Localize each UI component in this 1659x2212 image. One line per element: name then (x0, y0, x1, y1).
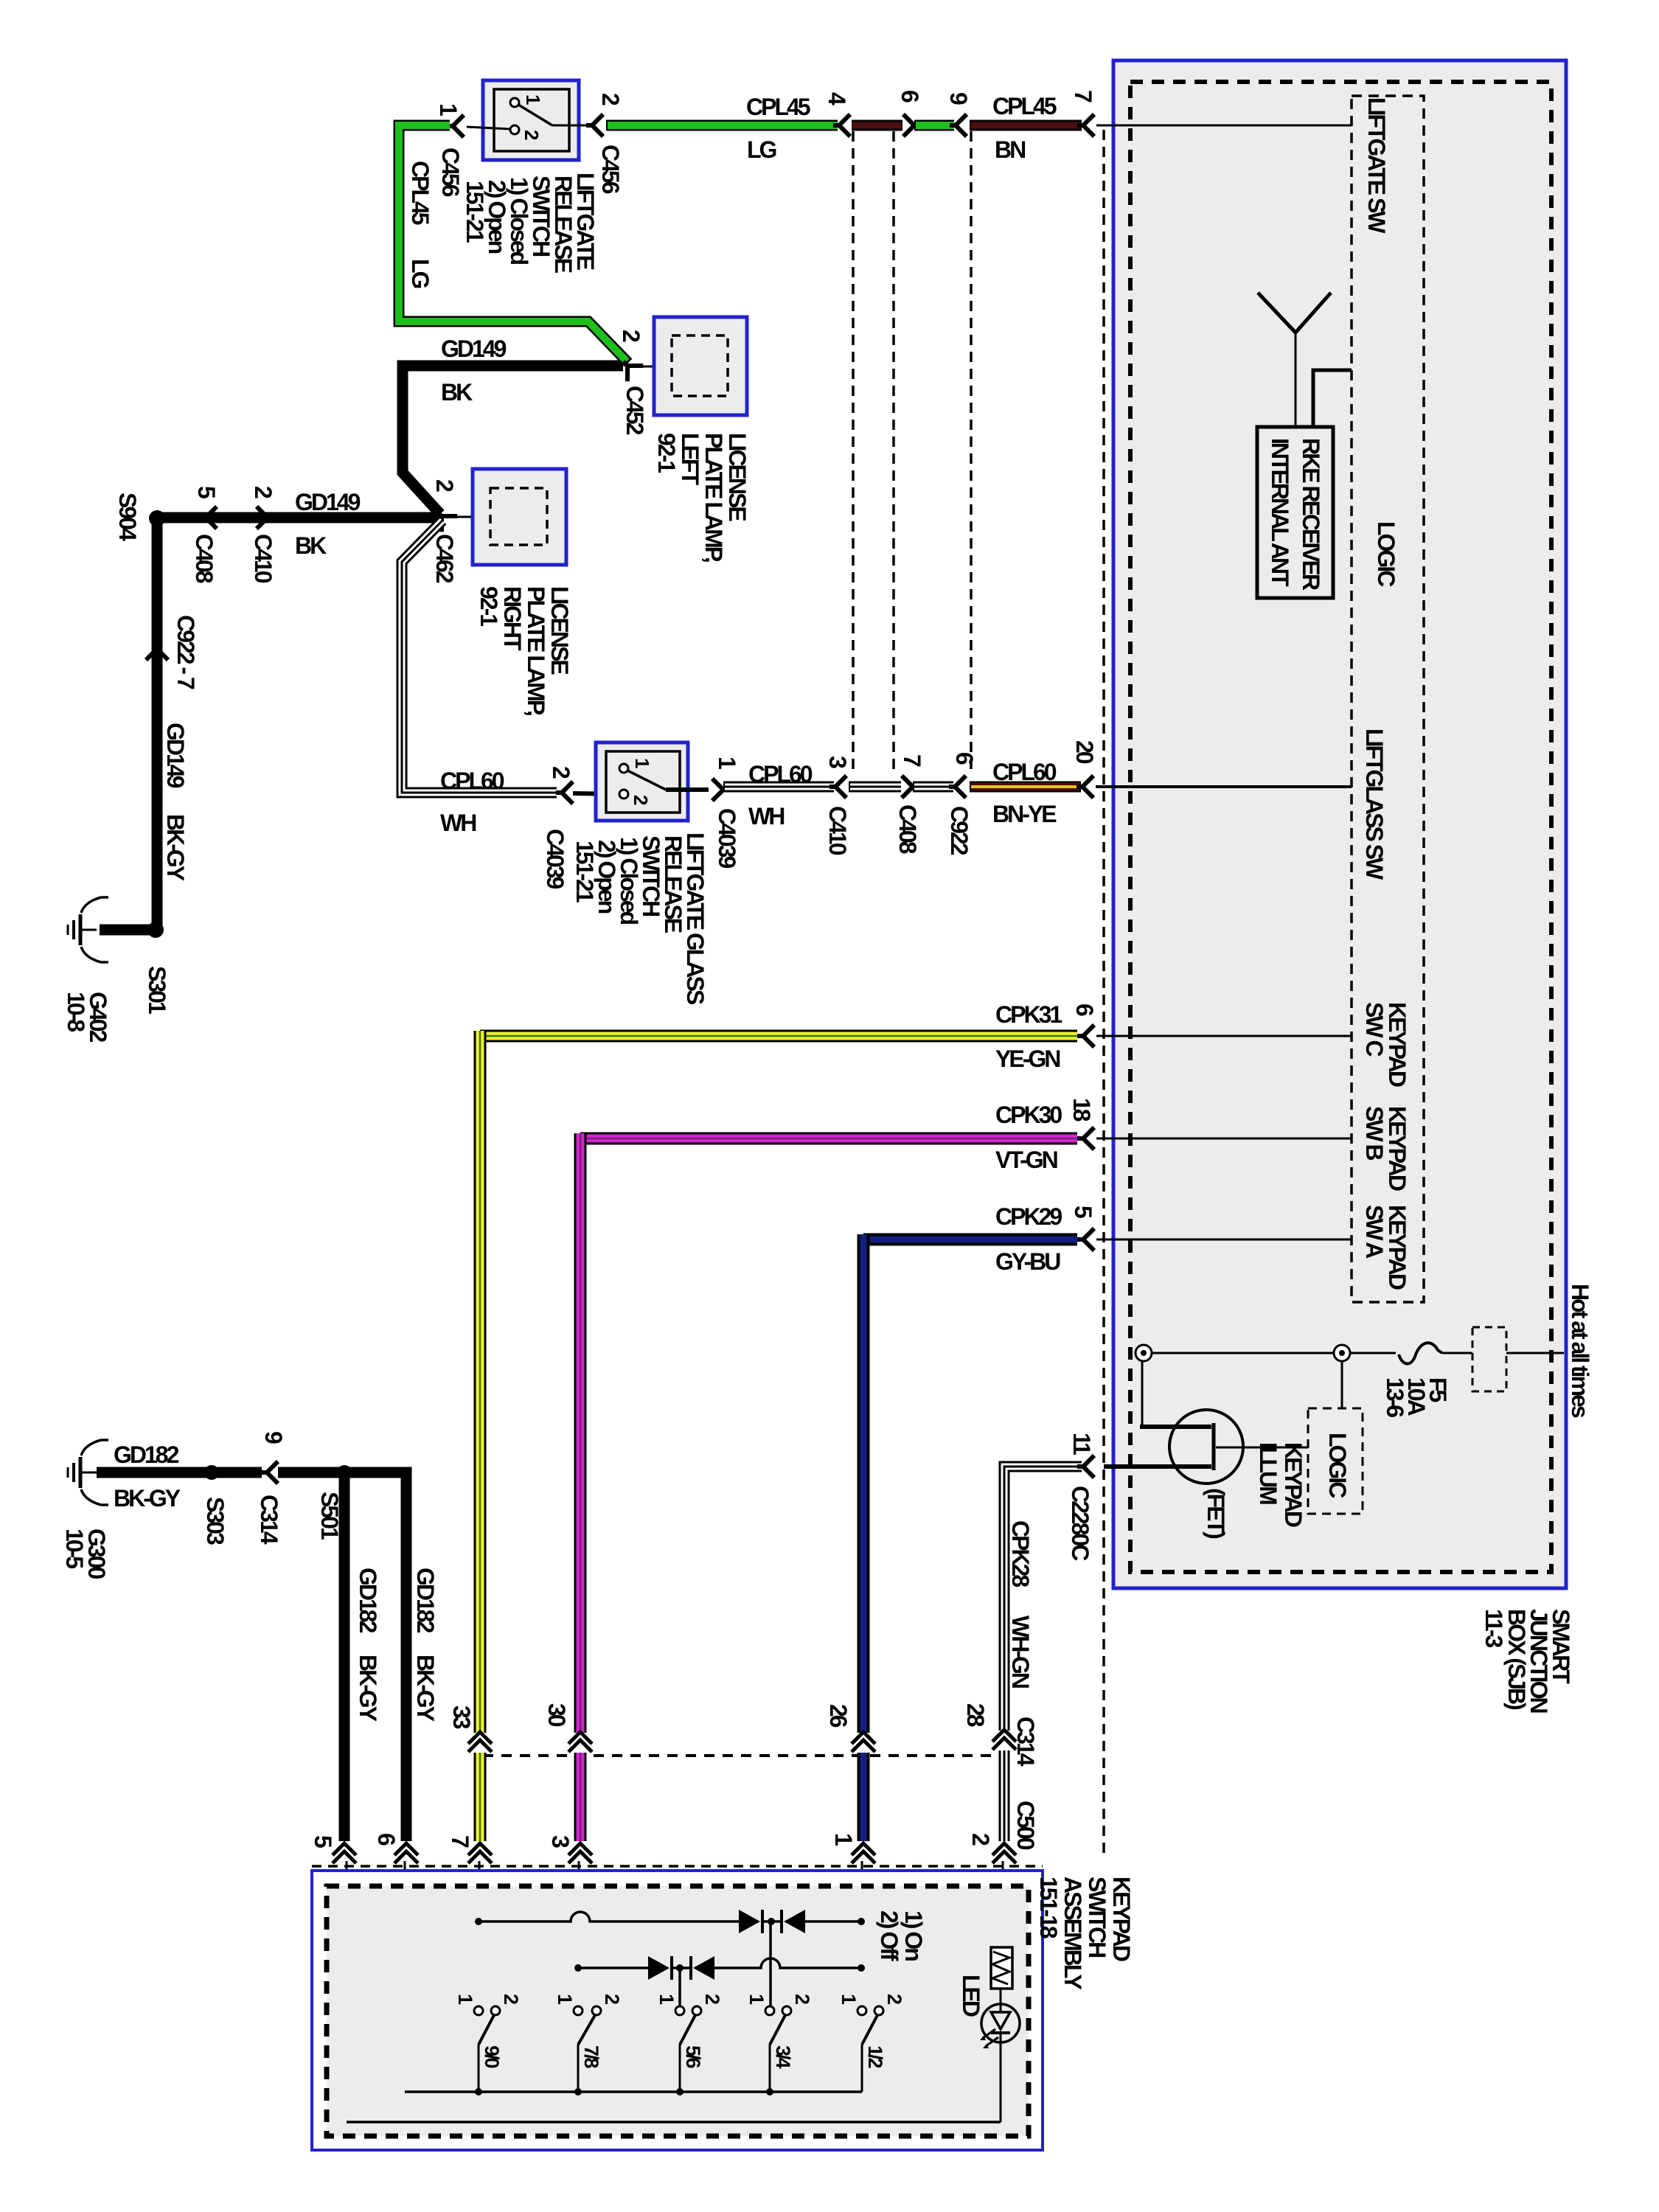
svg-text:WH-GN: WH-GN (1007, 1615, 1034, 1688)
switch 1/2 contacts (862, 2015, 877, 2045)
wire holder to edge (1506, 1352, 1564, 1354)
switch arm (518, 105, 552, 125)
svg-text:BN: BN (995, 136, 1025, 163)
svg-text:S303: S303 (202, 1497, 229, 1545)
svg-text:5/6: 5/6 (682, 2045, 704, 2069)
svg-text:2: 2 (701, 1994, 723, 2004)
svg-text:SW B: SW B (1361, 1106, 1388, 1160)
svg-text:C314: C314 (1012, 1717, 1039, 1767)
fuse holder dashed box (1472, 1327, 1506, 1391)
wire CPK31 vertical lower (474, 1753, 487, 1841)
grommet right (1334, 1345, 1350, 1361)
svg-text:RIGHT: RIGHT (499, 586, 526, 651)
svg-text:7: 7 (1070, 90, 1096, 102)
svg-text:BN-YE: BN-YE (992, 801, 1057, 827)
wire pin6 into keypad (404, 1861, 406, 2092)
svg-text:2: 2 (548, 766, 574, 779)
wire pin5 into keypad (346, 1861, 348, 2122)
keypad switch assembly box (312, 1871, 1043, 2150)
wire CPK29 GY-BU vertical upper (858, 1234, 870, 1733)
svg-text:2: 2 (250, 486, 276, 498)
svg-text:C4039: C4039 (714, 808, 740, 869)
svg-text:2: 2 (791, 1994, 813, 2004)
pin 2 arrow C4039 (556, 782, 573, 804)
svg-text:C410: C410 (250, 534, 276, 583)
svg-text:S904: S904 (114, 493, 141, 541)
svg-text:30: 30 (543, 1703, 570, 1727)
FET gate wire (1216, 1447, 1308, 1449)
wire GD182 to S303 (97, 1467, 262, 1478)
wire CPL60 WH segment1 (723, 782, 834, 793)
svg-text:LG: LG (407, 259, 434, 288)
node row1 at 9/0 (475, 1918, 482, 1925)
svg-text:10-5: 10-5 (61, 1528, 88, 1568)
wire drop to switch 3/4 (769, 1921, 772, 2006)
wire CPL45 LG left segment (399, 125, 628, 363)
wire CPK29 GY-BU horizontal (863, 1234, 1077, 1246)
svg-text:LICENSE: LICENSE (546, 586, 573, 675)
svg-text:KEYPAD: KEYPAD (1108, 1877, 1135, 1961)
svg-text:CPK31: CPK31 (995, 1001, 1062, 1028)
connector C408 dashed line (892, 131, 895, 775)
node row1 junction (768, 1918, 775, 1925)
keypad common bus (405, 2090, 862, 2093)
svg-text:LICENSE: LICENSE (724, 433, 751, 521)
pin 6 arrow CPK31 (1077, 1025, 1094, 1047)
switch 5/6 contacts (680, 2015, 695, 2045)
svg-text:BK-GY: BK-GY (162, 814, 189, 881)
svg-text:C314: C314 (256, 1495, 282, 1545)
svg-text:C408: C408 (894, 804, 921, 854)
svg-text:2: 2 (601, 1994, 623, 2004)
svg-text:GD182: GD182 (114, 1441, 179, 1468)
wire CPK30 vertical lower (574, 1753, 587, 1841)
pin 9 arrow C314 (261, 1461, 278, 1484)
svg-text:1: 1 (435, 103, 462, 116)
switch 9/0 contacts (479, 2015, 494, 2045)
svg-text:2) Off: 2) Off (876, 1910, 902, 1961)
node row1 at 1/2 (858, 1918, 865, 1925)
keypad connector dashed line (312, 1865, 1043, 1868)
svg-text:INTERNAL ANT: INTERNAL ANT (1267, 438, 1293, 587)
arrow C922-7 (146, 643, 168, 660)
svg-text:YE-GN: YE-GN (995, 1046, 1060, 1072)
splice S303 (204, 1465, 219, 1480)
svg-text:CPK28: CPK28 (1007, 1520, 1034, 1587)
svg-text:(FET): (FET) (1203, 1488, 1229, 1539)
wire CPK29 into SJB (1096, 1239, 1352, 1241)
pin 5 arrow C408 (200, 507, 217, 529)
pin 6 arrow keypad (394, 1843, 418, 1863)
svg-text:WH: WH (440, 810, 476, 836)
pin 6 arrow C922 (949, 776, 966, 798)
glass switch arm (627, 771, 666, 790)
svg-text:3/4: 3/4 (772, 2045, 794, 2069)
svg-text:5: 5 (193, 486, 220, 498)
svg-text:BK: BK (295, 532, 327, 559)
splice S501 (337, 1465, 352, 1480)
node row2 junction (676, 1964, 684, 1972)
svg-text:1: 1 (714, 757, 740, 769)
wire pin7 into SJB (1096, 125, 1352, 127)
wire pin3 into keypad (578, 1861, 580, 2008)
svg-text:6: 6 (373, 1833, 400, 1846)
svg-text:C456: C456 (597, 145, 624, 194)
LED D5 (981, 2004, 1020, 2042)
svg-text:13-6: 13-6 (1382, 1377, 1408, 1417)
svg-text:28: 28 (962, 1703, 989, 1727)
svg-text:C410: C410 (824, 806, 851, 855)
wire pin2 into keypad (1002, 1861, 1004, 1947)
svg-text:92-1: 92-1 (653, 433, 680, 473)
svg-text:2: 2 (618, 330, 644, 342)
SJB internal dashed boundary (1130, 82, 1551, 1572)
svg-text:9/0: 9/0 (481, 2045, 503, 2068)
pin 9 arrow (950, 114, 967, 136)
svg-text:151-21: 151-21 (571, 841, 598, 902)
svg-text:33: 33 (448, 1705, 475, 1729)
svg-text:1) On: 1) On (900, 1910, 927, 1961)
liftgate glass release switch box (596, 742, 688, 821)
svg-text:C408: C408 (191, 534, 218, 583)
svg-text:2: 2 (967, 1833, 994, 1846)
svg-text:1: 1 (830, 1833, 857, 1846)
svg-text:2: 2 (431, 479, 458, 492)
wire CPL60 WH segment2 (849, 782, 901, 793)
wire resistor to LED (1000, 1989, 1002, 2005)
wire fuse to holder (1442, 1352, 1472, 1354)
splice S904 (149, 510, 165, 526)
svg-text:GD182: GD182 (355, 1568, 381, 1633)
svg-text:CPK29: CPK29 (995, 1203, 1062, 1230)
FET source wire (1104, 1464, 1211, 1469)
svg-text:LED: LED (958, 1975, 984, 2017)
pin 7 arrow SJB (1077, 114, 1094, 136)
pin 30 arrow (568, 1732, 592, 1752)
connector C314 dashed line (483, 1754, 999, 1757)
svg-text:GY-BU: GY-BU (995, 1248, 1060, 1275)
SJB logic block dashed box (1352, 96, 1424, 1302)
svg-text:2: 2 (883, 1994, 905, 2004)
svg-text:CPK30: CPK30 (995, 1102, 1062, 1128)
wire CPL45 BN to SJB (970, 120, 1082, 131)
wire CPK28 WH-GN (1004, 1467, 1082, 1731)
liftgate release switch box (483, 80, 579, 160)
pin 20 arrow SJB (1077, 776, 1093, 798)
connector C410 dashed line (852, 131, 855, 775)
svg-text:Hot at all times: Hot at all times (1567, 1284, 1593, 1418)
switch wire to contact2 (467, 127, 510, 129)
resistor (LED) (991, 1947, 1012, 1989)
antenna symbol (1258, 293, 1331, 333)
svg-text:C4039: C4039 (542, 829, 568, 889)
svg-text:151-18: 151-18 (1035, 1877, 1062, 1938)
svg-text:11-3: 11-3 (1481, 1609, 1507, 1647)
keypad row1 wire (479, 1912, 739, 1921)
svg-text:CPL45: CPL45 (992, 93, 1057, 119)
svg-text:SW A: SW A (1361, 1205, 1388, 1259)
license plate lamp left box (654, 317, 747, 415)
pin 1 arrow C456 (447, 115, 464, 137)
svg-text:151-21: 151-21 (462, 181, 488, 243)
pin 1 arrow C4039 (712, 779, 729, 801)
fuse F5 symbol (1399, 1343, 1442, 1363)
diode D1 (739, 1910, 760, 1933)
pin 5 arrow CPK29 (1077, 1228, 1094, 1251)
svg-text:C462: C462 (431, 534, 458, 583)
svg-text:PLATE LAMP,: PLATE LAMP, (523, 586, 549, 715)
svg-text:SW C: SW C (1361, 1002, 1388, 1057)
wire CPK31 YE-GN horizontal (480, 1030, 1077, 1043)
svg-text:KEYPAD: KEYPAD (1280, 1442, 1307, 1527)
svg-text:C500: C500 (1012, 1801, 1039, 1850)
svg-text:10-8: 10-8 (63, 992, 89, 1032)
contact 2 (510, 125, 519, 134)
svg-text:LEFT: LEFT (677, 433, 703, 485)
svg-text:C922: C922 (946, 806, 973, 855)
svg-text:BK-GY: BK-GY (114, 1485, 181, 1512)
svg-text:CPL60: CPL60 (440, 768, 504, 794)
svg-text:GD149: GD149 (441, 335, 507, 362)
svg-text:SWITCH: SWITCH (1084, 1877, 1110, 1957)
antenna feed elbow (1313, 370, 1352, 427)
node row2 at 1/2 (858, 1964, 865, 1972)
FET drain wire (1140, 1425, 1211, 1429)
wire CPL45 BN segment C410-C408 (852, 120, 902, 131)
wire grommet-right down (1341, 1361, 1343, 1408)
svg-text:LOGIC: LOGIC (1373, 521, 1399, 587)
keypad illum LOGIC dashed box (1308, 1408, 1363, 1514)
svg-text:PLATE LAMP,: PLATE LAMP, (700, 433, 727, 562)
svg-text:5: 5 (310, 1835, 336, 1848)
glass contact 1 (619, 764, 628, 773)
grommet left (1135, 1345, 1152, 1361)
pin 2 arrow keypad (992, 1843, 1016, 1863)
RKE receiver box (1257, 427, 1333, 598)
svg-text:ILLUM: ILLUM (1255, 1442, 1281, 1504)
pin 26 arrow (852, 1732, 875, 1752)
wire S301 to ground (100, 925, 156, 936)
svg-text:2: 2 (597, 93, 624, 105)
transistor Q1 (FET) (1169, 1410, 1243, 1484)
SJB connector dashed line C2280 (1102, 130, 1105, 1854)
pin 7 arrow keypad (468, 1843, 492, 1863)
pin 5 arrow keypad (333, 1843, 356, 1863)
wire pin20 into SJB (1096, 785, 1352, 788)
splice S301 (147, 922, 164, 938)
svg-text:6: 6 (1071, 1004, 1098, 1016)
svg-text:VT-GN: VT-GN (995, 1147, 1057, 1173)
svg-text:C452: C452 (622, 386, 648, 435)
svg-text:3: 3 (824, 756, 851, 768)
svg-text:GD182: GD182 (412, 1568, 439, 1633)
wire WH from C462 down (402, 521, 557, 793)
smart junction box SJB outline (1113, 60, 1566, 1588)
node row2 at 7/8 (574, 1964, 582, 1972)
svg-text:BK-GY: BK-GY (355, 1655, 381, 1722)
pin 4 arrow (833, 114, 850, 136)
switch 3/4 contacts (770, 2015, 785, 2045)
power rail wire (1152, 1352, 1396, 1354)
pin 33 arrow (468, 1732, 492, 1752)
svg-text:26: 26 (825, 1704, 852, 1728)
diode D3 (648, 1956, 669, 1980)
wire CPL60 WH segment3 (913, 782, 953, 793)
wire CPL45 LG to C410 (606, 120, 838, 131)
ground G402 (80, 929, 97, 931)
svg-text:CPL60: CPL60 (748, 761, 813, 787)
svg-text:BK: BK (441, 379, 473, 406)
wire GD182 right segment (278, 1472, 406, 1841)
wire C462 arrow to lamp (451, 516, 490, 518)
wire CPK30 VT-GN vertical upper (574, 1133, 587, 1733)
svg-text:BK-GY: BK-GY (412, 1655, 439, 1722)
wire CPK29 vertical lower (858, 1753, 870, 1841)
diode D2 (784, 1910, 805, 1933)
wire CPK31 YE-GN vertical upper (474, 1031, 487, 1733)
wire pin1 into keypad (861, 1861, 863, 2008)
svg-text:2: 2 (500, 1994, 522, 2004)
pin 6 arrow (903, 114, 920, 136)
pin 7 arrow C408 (902, 776, 919, 798)
svg-text:S301: S301 (144, 966, 170, 1014)
pin 3 arrow keypad (568, 1843, 592, 1863)
svg-text:CPL45: CPL45 (746, 94, 810, 120)
svg-text:WH: WH (748, 803, 784, 829)
svg-text:ASSEMBLY: ASSEMBLY (1060, 1877, 1086, 1990)
svg-text:9: 9 (260, 1431, 287, 1444)
wire glass switch to pin1 (666, 787, 709, 792)
svg-text:LIFTGATE SW: LIFTGATE SW (1363, 97, 1390, 234)
svg-text:20: 20 (1071, 740, 1098, 764)
svg-text:6: 6 (897, 90, 923, 102)
svg-text:RKE RECEIVER: RKE RECEIVER (1298, 438, 1324, 591)
svg-text:9: 9 (945, 92, 972, 105)
svg-text:7: 7 (899, 754, 925, 767)
svg-text:7: 7 (447, 1835, 473, 1848)
wire CPK28 vertical lower (999, 1750, 1010, 1841)
wire S904 down to S301 (152, 518, 163, 930)
switch wire to pin2 (552, 125, 591, 127)
svg-text:LIFTGLASS SW: LIFTGLASS SW (1361, 728, 1388, 880)
wire grommet-left down (1141, 1361, 1144, 1429)
pin 2 arrow C452 (616, 354, 643, 381)
ground G300 (80, 1472, 97, 1474)
svg-text:LG: LG (747, 136, 776, 163)
svg-text:1/2: 1/2 (864, 2045, 886, 2068)
glass contact 2 (619, 790, 628, 799)
contact 1 (510, 98, 519, 107)
svg-text:C2280C: C2280C (1067, 1486, 1093, 1561)
pin 28 arrow (992, 1730, 1016, 1750)
wire CPK31 into SJB (1096, 1035, 1352, 1037)
pin 2 arrow C456 (586, 114, 603, 136)
wire S501 branch down (339, 1477, 350, 1841)
pin 18 arrow CPK30 (1077, 1127, 1094, 1150)
svg-text:11: 11 (1068, 1433, 1095, 1455)
svg-text:C922 - 7: C922 - 7 (173, 615, 199, 689)
pin 3 arrow C410 (829, 776, 846, 798)
pin 11 arrow (1077, 1455, 1094, 1478)
svg-text:92-1: 92-1 (476, 586, 502, 626)
diode D4 (693, 1956, 714, 1980)
keypad row2 wire (578, 1966, 648, 1969)
svg-text:18: 18 (1068, 1098, 1095, 1121)
svg-text:7/8: 7/8 (580, 2045, 602, 2069)
svg-text:3: 3 (547, 1835, 574, 1848)
pin 1 arrow keypad (852, 1843, 875, 1863)
svg-text:5: 5 (1070, 1206, 1096, 1218)
wire GD149 upper (403, 366, 623, 514)
wire CPL60 BN-YE (970, 782, 1081, 793)
svg-text:LOGIC: LOGIC (1324, 1433, 1351, 1498)
license plate lamp right box (473, 469, 566, 565)
wire pin7 into keypad (479, 1861, 481, 2008)
svg-text:GD149: GD149 (295, 489, 361, 515)
svg-text:CPL45: CPL45 (407, 161, 434, 225)
keypad inner dashed box (327, 1886, 1029, 2136)
svg-text:CPL60: CPL60 (992, 759, 1057, 785)
wire C452 arrow to lamp (640, 366, 673, 368)
svg-text:C456: C456 (437, 147, 464, 197)
connector C922 dashed line (970, 131, 973, 775)
svg-text:6: 6 (951, 752, 978, 765)
wire arrow to glass switch (573, 793, 624, 794)
wire CPL45 LG segment C408-C922 (914, 120, 954, 131)
switch 7/8 contacts (578, 2015, 595, 2045)
pin 2 arrow C410 (257, 507, 274, 529)
wire CPK30 VT-GN horizontal (580, 1133, 1077, 1145)
pin 2 arrow C462 (430, 504, 457, 532)
wire GD149 lower (157, 512, 440, 524)
wire CPK30 into SJB (1096, 1138, 1352, 1140)
keypad LED bus (347, 2121, 1001, 2124)
wire drop to switch 5/6 (678, 1968, 681, 2006)
svg-text:GD149: GD149 (162, 723, 189, 788)
